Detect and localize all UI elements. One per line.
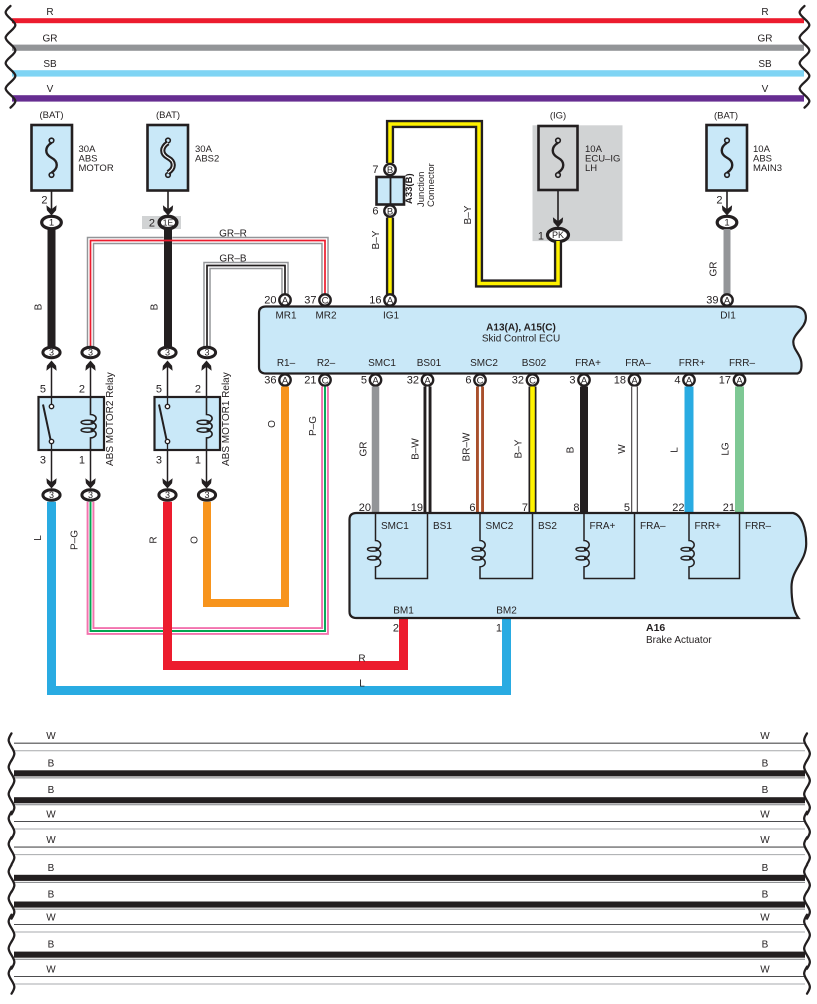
svg-text:B: B [387, 165, 393, 176]
svg-text:3: 3 [165, 490, 170, 500]
svg-text:MR1: MR1 [275, 311, 297, 322]
wire B (ABS MOTOR fuse to ABS MOTOR2 relay pin 5) [34, 229, 52, 348]
torn-edge mark right of top buses [800, 6, 810, 108]
actuator designation A16 Brake Actuator [646, 622, 712, 646]
svg-text:ABS MOTOR1 Relay: ABS MOTOR1 Relay [221, 372, 232, 466]
solenoid coil FRA+/FRA- inside actuator [576, 513, 635, 579]
wire R (ABS MOTOR1 relay pin 3 to actuator BM1) [149, 502, 404, 666]
svg-text:W: W [46, 731, 56, 742]
svg-text:1: 1 [496, 623, 502, 635]
ECU pin 21 C R2- [304, 358, 335, 387]
svg-text:C: C [322, 295, 329, 306]
svg-text:ABS2: ABS2 [195, 154, 219, 165]
wire LG (ECU FRR- to actuator 21) [721, 387, 740, 515]
ECU pin 16 A IG1 [369, 294, 399, 321]
svg-text:B: B [48, 940, 55, 951]
actuator pin 8 FRA+ [573, 502, 615, 532]
fuse 30A ABS2 [148, 110, 220, 216]
svg-text:GR: GR [359, 442, 370, 457]
fuse 30A ABS MOTOR [32, 110, 114, 216]
svg-text:FRR–: FRR– [745, 521, 772, 532]
svg-text:B–W: B–W [411, 438, 422, 460]
svg-text:A33(B): A33(B) [404, 173, 415, 204]
wire B (ECU FRA+ to actuator 8) [566, 387, 585, 515]
svg-text:3: 3 [204, 490, 209, 500]
svg-text:1: 1 [49, 218, 54, 229]
svg-text:3: 3 [88, 490, 93, 500]
relay ABS MOTOR2 Relay [39, 361, 117, 489]
ECU pin 36 A R1- [264, 358, 295, 387]
svg-text:8: 8 [573, 502, 579, 514]
svg-text:O: O [190, 536, 201, 544]
svg-text:(BAT): (BAT) [714, 111, 738, 122]
actuator pin 19 BS1 [411, 502, 453, 532]
pin 7 B of A33(B) [372, 164, 395, 176]
svg-text:MR2: MR2 [315, 311, 337, 322]
bus W (bottom rail 1) [9, 731, 810, 760]
svg-text:B–Y: B–Y [371, 230, 382, 249]
solenoid coil FRR+/FRR- inside actuator [681, 513, 740, 579]
svg-text:7: 7 [522, 502, 528, 514]
connector 1 (ABS MOTOR fuse outlet) [42, 216, 62, 228]
ECU pin 39 A DI1 [706, 294, 736, 321]
connector 3 (below ABS MOTOR1 relay pin 3) [159, 490, 176, 500]
bus B (bottom rail 2) [9, 758, 810, 787]
svg-text:B–Y: B–Y [463, 205, 474, 224]
svg-text:2: 2 [393, 623, 399, 635]
fuse 10A ABS MAIN3 [707, 111, 783, 216]
svg-text:B: B [48, 758, 55, 769]
svg-text:3: 3 [49, 348, 54, 358]
svg-text:GR–B: GR–B [219, 254, 247, 265]
svg-text:18: 18 [614, 375, 626, 387]
svg-text:22: 22 [672, 502, 684, 514]
svg-text:FRR+: FRR+ [695, 521, 722, 532]
svg-text:5: 5 [40, 384, 46, 396]
svg-text:21: 21 [304, 375, 316, 387]
svg-text:1E: 1E [163, 218, 174, 228]
svg-text:37: 37 [304, 295, 316, 307]
svg-text:2: 2 [79, 384, 85, 396]
svg-text:BS01: BS01 [417, 358, 442, 369]
connector 3 (below ABS MOTOR2 relay pin 3) [43, 490, 60, 500]
svg-text:SMC1: SMC1 [381, 521, 409, 532]
ECU pin 18 A FRA- [614, 358, 651, 387]
actuator pin 21 FRR- [723, 502, 772, 532]
svg-text:5: 5 [156, 384, 162, 396]
connector 3 (below ABS MOTOR2 relay pin 1) [82, 490, 99, 500]
brake actuator A16 body [350, 513, 807, 618]
svg-text:A: A [736, 375, 743, 386]
junction connector A33(B) [377, 163, 438, 207]
svg-text:6: 6 [372, 206, 378, 218]
wire W (ECU FRA- to actuator 5) [617, 387, 635, 515]
svg-text:L: L [670, 447, 681, 453]
svg-text:FRA–: FRA– [625, 358, 651, 369]
svg-text:GR: GR [709, 262, 720, 277]
svg-text:BS02: BS02 [522, 358, 547, 369]
svg-text:R: R [358, 654, 365, 665]
svg-text:A: A [424, 375, 431, 386]
ECU pin 32 A BS01 [407, 358, 442, 387]
svg-text:W: W [760, 731, 770, 742]
svg-text:3: 3 [569, 375, 575, 387]
svg-text:B: B [48, 785, 55, 796]
svg-text:P–G: P–G [308, 416, 319, 436]
svg-text:R: R [46, 7, 53, 18]
svg-text:1: 1 [538, 231, 544, 243]
ECU pin 37 C MR2 [304, 294, 337, 321]
svg-text:W: W [617, 444, 628, 454]
bus W (bottom rail 10) [9, 965, 810, 994]
svg-text:B: B [34, 303, 45, 310]
ECU pin 17 A FRR- [719, 358, 756, 387]
svg-text:A13(A), A15(C): A13(A), A15(C) [486, 323, 556, 334]
svg-text:DI1: DI1 [720, 311, 736, 322]
svg-text:W: W [46, 835, 56, 846]
svg-text:GR: GR [43, 33, 58, 44]
actuator pin 7 BS2 [522, 502, 557, 532]
bus W (bottom rail 4) [9, 810, 810, 839]
svg-text:B: B [762, 890, 769, 901]
svg-text:FRA+: FRA+ [575, 358, 601, 369]
svg-text:LH: LH [585, 163, 597, 174]
actuator pin 5 FRA- [624, 502, 666, 532]
svg-text:B: B [566, 446, 577, 453]
svg-text:BM1: BM1 [393, 606, 414, 617]
svg-text:BS1: BS1 [433, 521, 452, 532]
svg-text:R1–: R1– [277, 358, 296, 369]
bus V (top power rail) [12, 84, 804, 102]
wire B-Y (junction connector A33(B) pin 7 loop to ECU-IG fuse PK) [390, 124, 558, 284]
svg-text:A: A [724, 295, 731, 306]
bus R (top power rail) [12, 7, 804, 23]
ECU pin 5 A SMC1 [361, 358, 396, 387]
svg-text:LG: LG [721, 442, 732, 456]
svg-text:C: C [529, 375, 536, 386]
svg-text:7: 7 [372, 164, 378, 176]
svg-text:B: B [150, 303, 161, 310]
svg-text:(IG): (IG) [550, 111, 566, 122]
svg-text:SMC1: SMC1 [368, 358, 396, 369]
wire P-G (ABS MOTOR2 relay pin 1 to ECU R2-) [70, 387, 326, 632]
bus B (bottom rail 7) [9, 890, 810, 919]
wire B-Y (ECU BS02 to actuator 7) [514, 387, 533, 515]
svg-text:A: A [387, 295, 394, 306]
svg-text:R: R [149, 536, 160, 543]
svg-text:SB: SB [43, 59, 57, 70]
svg-text:C: C [322, 375, 329, 386]
relay ABS MOTOR1 Relay [155, 361, 233, 489]
wire GR (ABS MAIN3 fuse to ECU DI1) [709, 229, 728, 295]
svg-text:C: C [477, 375, 484, 386]
svg-text:FRR–: FRR– [729, 358, 756, 369]
svg-text:3: 3 [165, 348, 170, 358]
svg-text:A: A [282, 295, 289, 306]
svg-text:A: A [686, 375, 693, 386]
svg-text:B: B [762, 785, 769, 796]
svg-text:W: W [46, 913, 56, 924]
svg-text:6: 6 [469, 502, 475, 514]
svg-text:32: 32 [407, 375, 419, 387]
svg-text:B: B [762, 940, 769, 951]
svg-text:2: 2 [41, 195, 47, 207]
ECU pin 4 A FRR+ [674, 358, 705, 387]
svg-text:A: A [372, 375, 379, 386]
wire O (ABS MOTOR1 relay pin 1 to ECU R1-) [190, 387, 286, 604]
connector 1E (ABS2 fuse outlet) [142, 216, 181, 230]
svg-text:(BAT): (BAT) [156, 110, 180, 121]
svg-text:3: 3 [49, 490, 54, 500]
svg-text:16: 16 [369, 295, 381, 307]
svg-text:GR: GR [758, 33, 773, 44]
svg-text:V: V [762, 84, 769, 95]
svg-text:1: 1 [724, 218, 729, 229]
svg-text:W: W [760, 835, 770, 846]
svg-text:32: 32 [512, 375, 524, 387]
svg-text:5: 5 [624, 502, 630, 514]
svg-text:4: 4 [674, 375, 680, 387]
actuator pin 20 SMC1 [359, 502, 409, 532]
svg-text:BS2: BS2 [538, 521, 557, 532]
actuator terminal BM2 [496, 606, 517, 635]
svg-text:W: W [760, 913, 770, 924]
torn-edge mark left of top buses [6, 6, 16, 108]
connector 3 (above ABS MOTOR1 relay pin 5) [159, 347, 176, 357]
svg-text:O: O [267, 420, 278, 428]
svg-text:R2–: R2– [317, 358, 336, 369]
svg-text:FRA–: FRA– [640, 521, 666, 532]
svg-text:B: B [48, 890, 55, 901]
svg-text:SB: SB [758, 59, 772, 70]
actuator terminal BM1 [393, 606, 414, 635]
wire L (ABS MOTOR2 relay pin 3 to actuator BM2) [33, 502, 507, 691]
svg-text:W: W [760, 965, 770, 976]
bus B (bottom rail 9) [9, 940, 810, 969]
svg-text:PK: PK [552, 230, 564, 240]
ECU A13(A), A15(C) Skid Control ECU [259, 307, 806, 374]
svg-text:GR–R: GR–R [219, 229, 247, 240]
wire L (ECU FRR+ to actuator 22) [670, 387, 690, 515]
ECU pin 20 A MR1 [264, 294, 297, 321]
svg-text:5: 5 [361, 375, 367, 387]
svg-text:MOTOR: MOTOR [79, 163, 114, 174]
svg-text:20: 20 [264, 295, 276, 307]
wire B (ABS2 fuse to ABS MOTOR1 relay pin 5) [150, 229, 169, 347]
svg-text:SMC2: SMC2 [470, 358, 498, 369]
svg-text:SMC2: SMC2 [486, 521, 514, 532]
bus B (bottom rail 3) [9, 785, 810, 814]
svg-text:FRR+: FRR+ [679, 358, 706, 369]
wire B-W (ECU BS01 to actuator 19) [411, 387, 428, 515]
svg-text:V: V [47, 84, 54, 95]
svg-text:L: L [359, 679, 365, 690]
svg-text:B: B [387, 206, 393, 217]
svg-text:W: W [760, 810, 770, 821]
bus B (bottom rail 6) [9, 863, 810, 892]
connector 3 (above ABS MOTOR2 relay pin 5) [43, 347, 60, 357]
svg-text:W: W [46, 810, 56, 821]
wire GR-R (ABS MOTOR2 relay pin 2 to ECU MR2) [91, 229, 326, 348]
svg-text:B–Y: B–Y [514, 439, 525, 458]
svg-text:3: 3 [88, 348, 93, 358]
svg-text:P–G: P–G [70, 530, 81, 550]
bus SB (top power rail) [12, 59, 804, 77]
svg-text:2: 2 [195, 384, 201, 396]
svg-text:39: 39 [706, 295, 718, 307]
bus GR (top power rail) [12, 33, 804, 50]
svg-text:(BAT): (BAT) [39, 110, 63, 121]
svg-text:MAIN3: MAIN3 [753, 163, 782, 174]
connector 3 (above ABS MOTOR2 relay pin 2) [82, 347, 99, 357]
svg-text:Connector: Connector [426, 163, 437, 207]
svg-text:36: 36 [264, 375, 276, 387]
ECU pin 6 C SMC2 [465, 358, 498, 387]
solenoid coil SMC2/BS2 inside actuator [472, 513, 533, 579]
actuator pin 22 FRR+ [672, 502, 721, 532]
svg-text:B: B [762, 863, 769, 874]
svg-text:17: 17 [719, 375, 731, 387]
wire GR-B (ABS MOTOR1 relay pin 2 to ECU MR1) [207, 254, 285, 348]
svg-text:2: 2 [716, 195, 722, 207]
svg-text:L: L [33, 535, 44, 541]
svg-text:A: A [282, 375, 289, 386]
svg-text:Brake Actuator: Brake Actuator [646, 635, 712, 646]
svg-text:19: 19 [411, 502, 423, 514]
ECU pin 32 C BS02 [512, 358, 547, 387]
bus W (bottom rail 5) [9, 835, 810, 864]
svg-text:IG1: IG1 [383, 311, 400, 322]
svg-text:Skid Control ECU: Skid Control ECU [482, 334, 560, 345]
svg-text:BM2: BM2 [496, 606, 517, 617]
connector 1 PK (ECU-IG fuse outlet) [538, 228, 569, 242]
svg-text:3: 3 [40, 455, 46, 467]
connector 3 (above ABS MOTOR1 relay pin 2) [198, 347, 215, 357]
wire BR-W (ECU SMC2 to actuator 6) [462, 387, 481, 515]
svg-text:A16: A16 [646, 622, 665, 634]
svg-text:21: 21 [723, 502, 735, 514]
svg-text:B: B [762, 758, 769, 769]
actuator pin 6 SMC2 [469, 502, 513, 532]
svg-text:W: W [46, 965, 56, 976]
connector 1 (ABS MAIN3 fuse outlet) [717, 216, 737, 228]
svg-text:2: 2 [149, 218, 155, 230]
connector 3 (below ABS MOTOR1 relay pin 1) [198, 490, 215, 500]
svg-text:3: 3 [204, 348, 209, 358]
svg-text:1: 1 [195, 455, 201, 467]
svg-text:ABS MOTOR2 Relay: ABS MOTOR2 Relay [105, 372, 116, 466]
svg-text:BR–W: BR–W [462, 432, 473, 461]
svg-text:3: 3 [156, 455, 162, 467]
ECU pin 3 A FRA+ [569, 358, 601, 387]
svg-text:A: A [631, 375, 638, 386]
svg-text:A: A [581, 375, 588, 386]
wire GR (ECU SMC1 to actuator 20) [359, 387, 376, 515]
solenoid coil SMC1/BS1 inside actuator [368, 513, 428, 579]
svg-text:1: 1 [79, 455, 85, 467]
wire B-Y (junction connector A33(B) pin 6 to ECU IG1) [371, 218, 390, 296]
pin 6 B of A33(B) [372, 205, 395, 217]
svg-text:6: 6 [465, 375, 471, 387]
svg-text:B: B [48, 863, 55, 874]
fuse 10A ECU-IG LH with gray background [533, 111, 623, 242]
bus W (bottom rail 8) [9, 913, 810, 942]
svg-text:20: 20 [359, 502, 371, 514]
svg-text:FRA+: FRA+ [590, 521, 616, 532]
svg-text:R: R [761, 7, 768, 18]
